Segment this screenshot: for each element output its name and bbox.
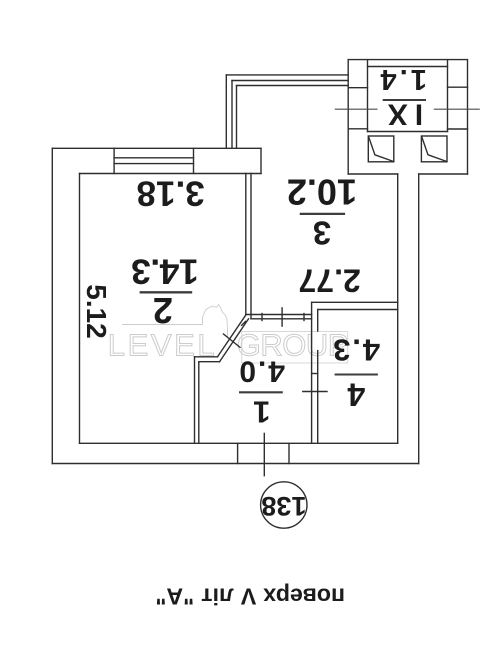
duct horizontal lines [226, 74, 348, 76]
svg-text:3: 3 [313, 214, 331, 251]
window W1 glazing line 1 [114, 157, 193, 159]
window W1 frame right [193, 148, 195, 173]
door D4 crossbar [312, 373, 318, 375]
balcony fraction bar [383, 99, 426, 101]
notch wall horizontals [195, 356, 218, 358]
door D3 axis tick [281, 308, 283, 326]
balcony left strip dividers [348, 87, 367, 89]
svg-text:4: 4 [347, 377, 365, 413]
wall top right edge [260, 148, 262, 173]
room 4 top wall [312, 301, 398, 303]
vent shaft square 1 [368, 136, 394, 162]
diagonal wall of room 1 [218, 315, 246, 357]
balcony inner wall left [367, 60, 369, 132]
svg-text:IX: IX [381, 98, 423, 131]
entry door jamb ticks [237, 443, 239, 463]
svg-text:1: 1 [253, 394, 270, 429]
entry door axis line [263, 433, 265, 475]
svg-text:2: 2 [153, 290, 173, 331]
svg-text:4.0: 4.0 [237, 355, 285, 388]
svg-text:3.18: 3.18 [137, 174, 205, 213]
wall left inner [79, 174, 81, 444]
wall right outer [418, 174, 420, 464]
room 1 fraction bar [239, 391, 283, 393]
svg-text:поверх V літ "А": поверх V літ "А" [155, 584, 345, 610]
wall bottom outer [52, 463, 418, 465]
svg-text:14.3: 14.3 [132, 252, 199, 292]
balcony right strip dividers [448, 86, 468, 88]
svg-text:4.3: 4.3 [331, 333, 380, 368]
window W1 glazing line 2 [114, 163, 193, 165]
wall top of room 1 [246, 314, 312, 316]
balcony IX outer walls [348, 60, 467, 174]
wall left outer [51, 148, 53, 463]
door D4 long crossbar [303, 391, 327, 393]
room 4 left wall [311, 302, 313, 443]
axis lines at balcony [335, 108, 480, 110]
wall bottom inner [80, 442, 398, 444]
vent shaft square 2 [421, 136, 447, 162]
wall top outer [52, 147, 261, 149]
wall right inner [397, 174, 399, 443]
duct riser vertical lines [225, 75, 227, 148]
room 3 fraction bar [300, 213, 345, 215]
room 2 fraction bar [140, 291, 193, 293]
balcony glazing line [368, 66, 448, 68]
balcony inner bottom [368, 131, 448, 133]
apartment number circle 138 [261, 482, 307, 528]
svg-text:10.2: 10.2 [287, 172, 357, 213]
balcony inner wall right [447, 60, 449, 132]
svg-text:1.4: 1.4 [378, 63, 427, 95]
wall between room 1 and room 2 [194, 357, 196, 444]
svg-text:138: 138 [261, 491, 306, 521]
watermark GROUP box [242, 332, 348, 364]
wall top inner [80, 173, 262, 175]
svg-text:2.77: 2.77 [298, 263, 360, 299]
watermark skyline logo [122, 305, 228, 338]
room 4 fraction bar [335, 373, 378, 375]
window W1 frame left [113, 148, 115, 173]
wall between room 2 and room 3 [245, 174, 247, 315]
door D3 jamb ticks on room1 top wall [261, 314, 263, 321]
svg-text:5.12: 5.12 [81, 284, 112, 339]
door D2 jamb tick [242, 321, 246, 325]
door D2 leaf across diagonal wall [224, 334, 241, 347]
